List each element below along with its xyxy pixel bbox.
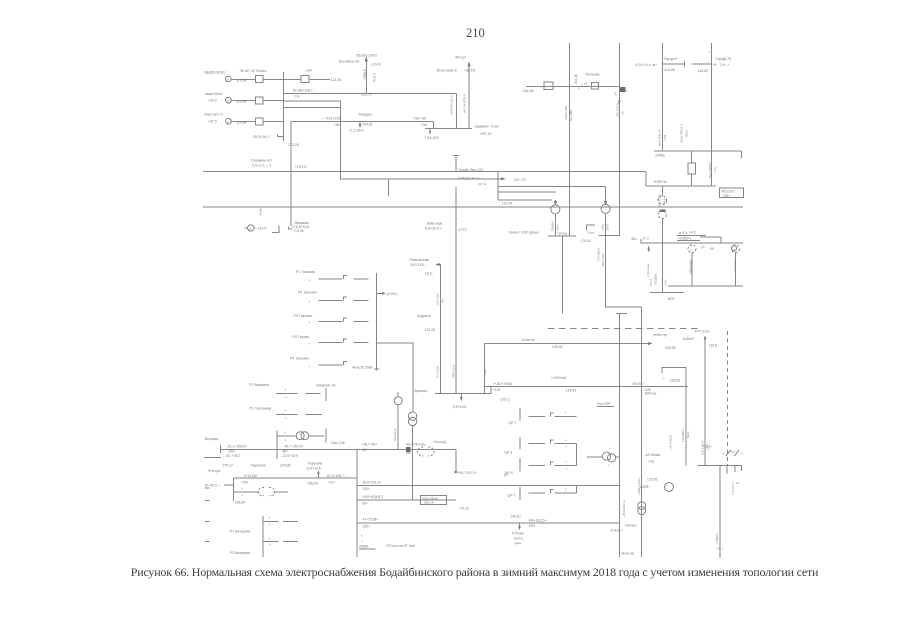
svg-text:ПЗ,+: ПЗ,+ <box>329 481 336 485</box>
svg-text:+чэж: +чэж <box>483 369 487 376</box>
svg-text:+: + <box>269 523 271 527</box>
svg-text:З,ас(: З,ас( <box>588 230 596 234</box>
svg-text:~: ~ <box>690 248 692 252</box>
svg-text:|Г-2: |Г-2 <box>643 237 649 241</box>
svg-text:Чаепро: Чаепро <box>625 523 636 527</box>
svg-text:47+73,58+: 47+73,58+ <box>363 518 379 522</box>
wire <box>641 239 743 243</box>
svg-text:/5кз: /5кз <box>631 237 637 241</box>
svg-text:~: ~ <box>734 248 736 252</box>
dash <box>205 500 210 502</box>
svg-text:+(Сущ→: +(Сущ→ <box>557 231 570 235</box>
svg-text:5в+: 5в+ <box>406 451 411 455</box>
svg-text:+ВП9,9+112,5: +ВП9,9+112,5 <box>450 95 454 115</box>
dash <box>205 487 210 489</box>
svg-text:25МВА: 25МВА <box>550 222 554 231</box>
svg-text:Мотя-ав: Мотя-ав <box>622 552 635 556</box>
sync condenser circle <box>248 225 254 231</box>
svg-text:+: + <box>663 377 665 381</box>
bus 220kV main <box>203 170 646 172</box>
svg-text:+: + <box>566 467 568 471</box>
svg-text:+: + <box>565 438 567 442</box>
bus Таксимо 35kV <box>376 273 378 371</box>
wire <box>231 99 255 101</box>
svg-text:244,16: 244,16 <box>574 74 578 84</box>
wire <box>700 236 721 238</box>
tick <box>734 465 736 472</box>
line Высоковольтная with up arrow <box>468 63 470 128</box>
svg-text:(з+з%): (з+з%) <box>387 292 397 296</box>
svg-text:+(Вт19): +(Вт19) <box>464 69 475 73</box>
svg-text:45,7+157,5+: 45,7+157,5+ <box>285 445 304 449</box>
svg-text:5,9-17,1 ←┤: 5,9-17,1 ←┤ <box>252 162 272 168</box>
dashed standby line <box>726 331 728 465</box>
node junction filled <box>619 87 626 92</box>
svg-text:5,5+Эв+: 5,5+Эв+ <box>512 532 525 536</box>
svg-text:112,44: 112,44 <box>502 202 512 206</box>
svg-text:ЦР-9: ЦР-9 <box>505 471 513 475</box>
svg-text:+б2/с: +б2/с <box>600 223 604 231</box>
dashed line ЛЭП <box>548 327 700 329</box>
bus 110kV main <box>203 206 743 208</box>
svg-text:2: 2 <box>227 120 229 124</box>
arrow Перекачи up <box>317 472 319 479</box>
svg-text:]:Эо-лк,м+: ]:Эо-лк,м+ <box>646 263 650 277</box>
svg-text:+: + <box>285 395 287 399</box>
svg-text:+В,9+152,4+: +В,9+152,4+ <box>622 499 626 517</box>
line Тугруй-Вул-123 <box>340 178 502 180</box>
wire <box>233 478 235 501</box>
svg-text:132,06: 132,06 <box>425 328 436 332</box>
svg-text:5,9+14,7+: 5,9+14,7+ <box>731 481 735 494</box>
wire <box>263 120 283 122</box>
svg-text:Р1 Глухонемр: Р1 Глухонемр <box>250 407 272 411</box>
svg-text:25ГБ: 25ГБ <box>606 223 610 230</box>
svg-text:ВкЛ-ЛГБ,4+: ВкЛ-ЛГБ,4+ <box>658 129 662 146</box>
svg-text:ПТУшел на ПГ Лыб: ПТУшел на ПГ Лыб <box>387 544 416 548</box>
svg-text:25к5Б: 25к5Б <box>359 545 369 549</box>
svg-text:Чв-Б,35 35кВ: Чв-Б,35 35кВ <box>352 365 373 369</box>
svg-text:Тугруй -Вул-123: Тугруй -Вул-123 <box>458 168 483 172</box>
svg-text:26,1+150,5+: 26,1+150,5+ <box>228 445 247 449</box>
svg-text:Р2 Вершина: Р2 Вершина <box>250 383 270 387</box>
transformer T7 <box>638 502 646 510</box>
breaker row <box>234 491 260 493</box>
svg-text:Б,3+32,0 ч: Б,3+32,0 ч <box>425 227 442 231</box>
svg-text:ЦР-3: ЦР-3 <box>505 450 513 454</box>
switch slash 1 <box>726 450 731 456</box>
svg-text:ПВ2+: ПВ2+ <box>684 129 688 137</box>
breaker Q3 <box>255 97 263 104</box>
svg-text:+13,08: +13,08 <box>293 229 304 233</box>
bus 110kV lower <box>485 343 652 345</box>
transformer T4 <box>408 412 416 420</box>
svg-text:ч: ч <box>456 217 458 221</box>
row Р2 Вечерняя <box>263 540 279 542</box>
svg-text:126+: 126+ <box>529 524 536 528</box>
svg-text:Б/ПВк: Б/ПВк <box>656 154 666 158</box>
svg-text:ЛЕД: ЛЕД <box>729 450 735 454</box>
svg-text:159+: 159+ <box>723 194 730 198</box>
tick <box>726 465 728 473</box>
svg-text:Р1 Вечерняя: Р1 Вечерняя <box>230 530 250 534</box>
svg-text:Вамь-юра: Вамь-юра <box>427 222 442 226</box>
arrow down on B <box>618 101 621 105</box>
row Р1 Вечерняя <box>262 516 264 557</box>
svg-text:+: + <box>309 365 311 369</box>
bus y485.5 <box>357 485 619 487</box>
svg-text:6,49+19,3: 6,49+19,3 <box>690 259 694 272</box>
svg-text:+: + <box>309 321 311 325</box>
svg-text:+: + <box>565 411 567 415</box>
feeder 69,7 <box>455 449 457 472</box>
svg-text:4+31Б,7: 4+31Б,7 <box>611 529 624 533</box>
svg-text:+1к0: +1к0 <box>421 123 428 127</box>
svg-text:+ЧВ2+ЛЭ4Б: +ЧВ2+ЛЭ4Б <box>494 382 513 386</box>
svg-text:Ф+в-гра: Ф+в-гра <box>208 469 220 473</box>
substation step outline <box>497 172 499 200</box>
wire corner <box>484 344 486 394</box>
svg-text:113,34: 113,34 <box>236 100 246 104</box>
breaker Q6 <box>591 83 598 90</box>
bracket Затем <box>587 225 596 231</box>
svg-text:ПЭч-В2л2: ПЭч-В2л2 <box>597 247 601 261</box>
svg-text:+: + <box>309 342 311 346</box>
tick <box>740 465 742 471</box>
wire corner from БПЭ8 <box>455 93 457 128</box>
svg-text:12Б+: 12Б+ <box>363 524 371 528</box>
svg-text:ЛС вС лУ Помес: ЛС вС лУ Помес <box>240 69 267 73</box>
svg-text:Высн-авам-б: Высн-авам-б <box>437 69 457 73</box>
svg-text:НВ,7-ЛВ+: НВ,7-ЛВ+ <box>363 442 378 446</box>
svg-text:Р3 Таксимо: Р3 Таксимо <box>294 314 313 318</box>
svg-text:→ПЗ, +35 2: →ПЗ, +35 2 <box>223 454 241 458</box>
svg-text:6,44+13,4: 6,44+13,4 <box>733 259 737 272</box>
wire B lower <box>618 314 620 558</box>
svg-text:Окунсаже: Окунсаже <box>251 464 266 468</box>
svg-text:|,4: |,4 <box>701 245 705 249</box>
svg-text:(78,04: (78,04 <box>581 239 591 243</box>
svg-text:+-114,9: +-114,9 <box>255 226 266 230</box>
svg-text:24с-124,8: 24с-124,8 <box>615 103 619 117</box>
svg-text:+: + <box>309 300 311 304</box>
svg-text:ПЗ,+: ПЗ,+ <box>717 547 724 551</box>
wire x641.7 <box>641 307 643 557</box>
svg-text:67,1+155,7→: 67,1+155,7→ <box>327 474 347 478</box>
svg-text:+: + <box>269 543 271 547</box>
svg-text:+б: +б <box>620 111 624 115</box>
svg-text:282,14: 282,14 <box>424 501 434 505</box>
svg-text:Вв382/ВЭС/: Вв382/ВЭС/ <box>205 71 227 75</box>
svg-text:+125: +125 <box>493 388 500 392</box>
svg-text:Сервуны пст: Сервуны пст <box>251 159 273 163</box>
wire double-circuit b <box>283 106 340 108</box>
svg-text:+: + <box>242 494 244 498</box>
bus y500 <box>357 499 456 501</box>
wire <box>231 120 255 122</box>
svg-text:ба +455: ба +455 <box>569 109 573 121</box>
row ЦР-7 bottom <box>519 487 521 500</box>
arrow stub <box>429 128 431 133</box>
wire down <box>561 236 563 314</box>
wire vertical B upper <box>618 43 620 236</box>
transformer T1 Связь <box>554 200 556 205</box>
svg-text:24|Л5: 24|Л5 <box>640 485 649 489</box>
svg-text:+2: +2 <box>625 89 629 93</box>
bus Ангарка <box>220 448 357 450</box>
svg-text:+: + <box>285 409 287 413</box>
svg-text:7,49-1б3: 7,49-1б3 <box>425 136 439 140</box>
transformer T3 <box>661 186 663 196</box>
svg-text:Городч,Р: Городч,Р <box>664 57 679 61</box>
svg-text:128,59: 128,59 <box>670 379 681 383</box>
svg-text:Р2 Вечерняя: Р2 Вечерняя <box>230 551 250 555</box>
wire <box>309 78 330 80</box>
svg-text:12|,Е: 12|,Е <box>425 272 434 276</box>
svg-text:210: 210 <box>466 26 485 40</box>
svg-text:6,24+14,4 ◄+: 6,24+14,4 ◄+ <box>636 63 657 67</box>
circle load <box>394 397 402 405</box>
bus Мамская vertical <box>356 449 358 557</box>
wire step down <box>645 171 647 186</box>
svg-text:5б+: 5б+ <box>363 501 369 505</box>
svg-text:(Г/ТЗ: (Г/ТЗ <box>459 228 467 232</box>
svg-text:Гисп,22Б: Гисп,22Б <box>331 441 346 445</box>
generator circle 1 <box>688 245 696 253</box>
svg-text:Р1 Таксимо: Р1 Таксимо <box>296 270 315 274</box>
line БПЭ8-118,7 <box>283 92 456 94</box>
svg-text:+124,6: +124,6 <box>371 63 381 67</box>
svg-text:ЛЛ: ЛЛ <box>710 247 714 251</box>
svg-text:Ра: Ра <box>424 389 428 393</box>
svg-text:49в+28,(1)+: 49в+28,(1)+ <box>529 518 547 522</box>
wire corner <box>432 121 434 128</box>
svg-text:1З2-ВБч+: 1З2-ВБч+ <box>681 428 685 442</box>
wire tick <box>662 63 684 65</box>
wire branch down x388.6 <box>388 179 390 196</box>
breaker dashed circles <box>418 447 424 456</box>
svg-text:+: + <box>565 488 567 492</box>
bus y386.5 <box>484 386 688 388</box>
svg-text:Перекачи: Перекачи <box>308 462 323 466</box>
svg-text:5,9+13,8: 5,9+13,8 <box>453 405 466 409</box>
svg-text:+ЕПЗ,5+,В 4,Г: +ЕПЗ,5+,В 4,Г <box>458 177 481 181</box>
svg-text:+: + <box>578 87 580 91</box>
svg-text:15+35,5 ↔: 15+35,5 ↔ <box>205 483 222 487</box>
svg-text:+АГс: +АГс <box>664 279 668 286</box>
svg-text:+: + <box>269 516 271 520</box>
svg-text:1+13,66+: 1+13,66+ <box>244 474 258 478</box>
svg-text:205+: 205+ <box>228 449 235 453</box>
svg-text:125,90: 125,90 <box>552 345 563 349</box>
svg-text:45,9+151,4+: 45,9+151,4+ <box>363 480 382 484</box>
svg-text:+: + <box>285 438 287 442</box>
switch circle-x <box>731 246 736 251</box>
svg-text:Д: Д <box>249 227 251 231</box>
svg-text:+: + <box>285 417 287 421</box>
svg-text:5,8+13,5 ←: 5,8+13,5 ← <box>411 263 429 267</box>
svg-text:20+-79: 20+-79 <box>514 178 526 182</box>
svg-text:256,05: 256,05 <box>308 482 319 486</box>
bus y522.8 <box>357 522 620 524</box>
breaker Q4 <box>255 118 263 125</box>
svg-text:15кз-132+: 15кз-132+ <box>601 253 605 267</box>
svg-text:24: 24 <box>614 92 618 96</box>
svg-text:276,08: 276,08 <box>280 464 290 468</box>
svg-text:124,5: 124,5 <box>709 344 718 348</box>
svg-text:6,7+124+: 6,7+124+ <box>436 365 440 378</box>
bus vertical left station <box>282 72 284 142</box>
arrow load <box>460 394 462 400</box>
svg-text:◄+С4,7+П7: ◄+С4,7+П7 <box>678 231 696 235</box>
row ЦР-3 <box>519 437 521 450</box>
svg-text:125,95: 125,95 <box>665 346 675 350</box>
bus y478 <box>234 477 357 479</box>
svg-text:24: 24 <box>736 481 740 485</box>
line Вачинская <box>453 155 459 157</box>
svg-text:в2с+: в2с+ <box>556 224 560 230</box>
svg-text:Энергия- Ю: Энергия- Ю <box>316 383 336 387</box>
transformer T6 <box>587 456 602 458</box>
svg-text:АЛ Мама: АЛ Мама <box>646 453 661 457</box>
arrow load <box>519 523 521 528</box>
reactor <box>688 163 696 174</box>
svg-text:125+: 125+ <box>363 487 370 491</box>
svg-text:Реленза: Реленза <box>586 73 600 77</box>
transformer T5 row <box>276 430 278 459</box>
svg-text:+НЕ,15: +НЕ,15 <box>480 132 492 136</box>
arrow load down <box>359 121 361 126</box>
wire x412 lower <box>412 448 414 500</box>
svg-text:240,б7: 240,б7 <box>511 514 522 518</box>
svg-text:Юлта: Юлта <box>514 537 523 541</box>
svg-text:+ВКЛ-Рам: +ВКЛ-Рам <box>564 105 568 120</box>
svg-text:235,64: 235,64 <box>235 501 246 505</box>
svg-text:45+(-)л: 45+(-)л <box>455 56 466 60</box>
bus T2 <box>599 235 620 237</box>
svg-text:НЕЛ+ВЛ(Н)Г2: НЕЛ+ВЛ(Н)Г2 <box>363 495 384 499</box>
bus Времч <box>435 393 491 395</box>
svg-text:+: + <box>361 534 363 538</box>
breaker Q5 <box>544 82 553 89</box>
svg-text:+Ф: +Ф <box>713 63 718 67</box>
svg-text:6,5-135+: 6,5-135+ <box>436 293 440 305</box>
svg-text:113,2в: 113,2в <box>236 121 246 125</box>
transformer T2 <box>605 187 607 205</box>
svg-text:Раэм-вечная: Раэм-вечная <box>410 258 430 262</box>
svg-text:Р5 Таксимо: Р5 Таксимо <box>290 357 309 361</box>
svg-text:БсВте2: БсВте2 <box>683 337 694 341</box>
node black <box>406 447 411 452</box>
bus БЛВ-Эс <box>646 185 716 187</box>
svg-text:7,4+,-+: 7,4+,-+ <box>720 63 730 67</box>
svg-text:+5,74: +5,74 <box>478 182 487 186</box>
svg-text:+: + <box>285 388 287 392</box>
svg-text:ПЭч1: ПЭч1 <box>649 278 653 286</box>
svg-text:НЕЛ+ЛЮ+бы: НЕЛ+ЛЮ+бы <box>406 442 426 446</box>
svg-text:+: + <box>566 445 568 449</box>
svg-text:ВЛ9+ьз: ВЛ9+ьз <box>645 392 657 396</box>
switch slash 2 <box>735 450 740 456</box>
svg-text:Г35+: Г35+ <box>242 481 249 485</box>
bus y465 <box>697 464 742 466</box>
svg-text:ПЗ+12,4+: ПЗ+12,4+ <box>393 427 397 441</box>
label box 282,14 <box>421 496 447 505</box>
svg-text:+: + <box>565 460 567 464</box>
wire vertical Город 1 <box>661 43 663 151</box>
wire vertical A <box>568 43 570 236</box>
feeder down <box>719 465 721 558</box>
svg-text:+: + <box>309 279 311 283</box>
wire riser Тугруй <box>339 101 341 179</box>
wire <box>433 448 456 450</box>
branch arrow <box>377 292 384 294</box>
bus lower <box>668 285 743 287</box>
wire <box>231 78 255 80</box>
corner to lower feeder <box>606 306 642 308</box>
svg-text:25,3+26,7: 25,3+26,7 <box>253 135 270 139</box>
svg-text:+ЭЛ6,6: +ЭЛ6,6 <box>363 69 367 80</box>
svg-text:113,29: 113,29 <box>288 143 299 147</box>
svg-text:+: + <box>723 452 725 456</box>
svg-text:ймес БС+3: ймес БС+3 <box>205 113 223 117</box>
svg-text:125,95: 125,95 <box>647 478 657 482</box>
svg-text:144+: 144+ <box>663 197 667 204</box>
wire <box>263 99 283 101</box>
dash <box>205 540 210 542</box>
svg-text:113,34: 113,34 <box>236 79 246 83</box>
svg-text:Времч: Времч <box>415 389 425 393</box>
svg-text:Выгорка: Выгорка <box>205 437 218 441</box>
svg-text:(0,3+14,5: (0,3+14,5 <box>307 467 321 471</box>
svg-text:(25 1): (25 1) <box>501 398 510 402</box>
row ЦР-7 top <box>519 408 521 421</box>
svg-text:Связь с ОЭС р(Баж: Связь с ОЭС р(Баж <box>509 231 540 235</box>
svg-text:+37,5: +37,5 <box>208 120 217 124</box>
svg-text:+эЛ2+на9: +эЛ2+на9 <box>551 376 566 380</box>
svg-text:+: + <box>741 452 743 456</box>
bus y447 <box>357 448 433 450</box>
wire feeder Мамакан vertical <box>290 121 292 226</box>
svg-text:+: + <box>269 536 271 540</box>
svg-text:↔+1: ↔+1 <box>581 82 588 86</box>
svg-text:+ЛВУЛ+: +ЛВУЛ+ <box>715 533 719 544</box>
bus T1 <box>548 235 576 237</box>
svg-text:116,82: 116,82 <box>698 69 709 73</box>
wire vertical Город 2 <box>710 43 712 186</box>
svg-text:№4+: №4+ <box>686 431 690 438</box>
svg-text:50+: 50+ <box>363 448 369 452</box>
svg-text:↔+123+129: ↔+123+129 <box>321 117 340 121</box>
svg-text:б39,2б: б39,2б <box>363 123 373 127</box>
svg-text:→22,5+18,9: →22,5+18,9 <box>280 454 298 458</box>
line with up arrow <box>704 336 706 465</box>
svg-text:ЛЕУДВа: ЛЕУДВа <box>654 274 658 285</box>
svg-text:+35,5+ЮЗч: +35,5+ЮЗч <box>669 434 673 450</box>
breaker Q1 <box>255 76 263 83</box>
svg-text:(Дом: (Дом <box>515 541 522 545</box>
svg-text:2,9+: 2,9+ <box>294 95 300 99</box>
svg-text:+25,94,Г: +25,94,Г <box>632 382 645 386</box>
svg-text:Б: Б <box>227 78 229 82</box>
svg-text:БЛВ+Эс: БЛВ+Эс <box>654 180 667 184</box>
svg-text:+30+-36: +30+-36 <box>413 117 426 121</box>
svg-text:Гисп,вД: Гисп,вД <box>434 440 447 444</box>
svg-text:ЦР-7: ЦР-7 <box>509 421 517 425</box>
bracket tie rows <box>575 443 577 465</box>
svg-text:х: х <box>709 50 711 54</box>
svg-text:БСЭ8+118,7→: БСЭ8+118,7→ <box>293 89 316 93</box>
